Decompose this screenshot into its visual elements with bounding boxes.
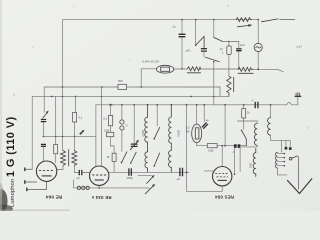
speaker drop wire: [298, 157, 300, 190]
speckles: [13, 94, 14, 95]
wire column x101 tube2: [100, 87, 102, 167]
capacitor tube2 input plates: [79, 170, 82, 175]
capacitor 0,005 plates: [129, 168, 131, 175]
coil L2 upper: [169, 105, 172, 143]
lamp La circle: [254, 43, 262, 51]
capacitor rail right plates: [180, 168, 183, 176]
node cap2µ bottom: [181, 68, 183, 70]
switch blade d: [154, 153, 159, 166]
column lamp x122: [121, 105, 123, 152]
capacitor C2 plates: [201, 49, 207, 51]
switch S2 blade: [214, 37, 223, 41]
tube V2 grid dashes: [92, 174, 106, 176]
wire S3 to line2: [213, 62, 215, 105]
svg-text:Gl: Gl: [220, 47, 223, 51]
wire T1 primary bottom to tube1: [57, 166, 63, 170]
resistor R3 underlined zigzag: [238, 67, 253, 71]
svg-text:RE 034 s: RE 034 s: [91, 195, 111, 200]
node R3 right: [257, 68, 259, 70]
svg-text:2µ: 2µ: [172, 25, 177, 29]
wiper arrow rail2: [147, 176, 154, 183]
column resistor chain x110: [110, 105, 114, 173]
resistor box 0,05 h: [207, 144, 217, 148]
cathode rail y172: [108, 171, 189, 173]
wire anode bus line1: [44, 87, 220, 96]
svg-text:0,45A-W 10V: 0,45A-W 10V: [143, 60, 161, 64]
wire top supply bus: [63, 19, 259, 21]
trimmer arrow: [43, 112, 48, 118]
trimmer column x204: [203, 105, 205, 122]
svg-text:0,05: 0,05: [104, 128, 110, 132]
terminal blocks dark: [285, 147, 288, 150]
capacitor 2µ plates: [179, 34, 186, 36]
node top bus joints: [181, 19, 183, 21]
switch blade b: [131, 152, 136, 163]
node cap1µF bottom: [238, 68, 240, 70]
transformer T1 primary scribble: [61, 151, 66, 166]
coil B: [268, 118, 271, 136]
wire hop over junction: [287, 103, 292, 105]
coil D bottom hook: [278, 168, 287, 175]
lamp circles: [120, 120, 124, 124]
node line3 start: [95, 105, 97, 167]
wire column x225: [224, 105, 226, 146]
svg-text:1µF: 1µF: [240, 43, 245, 47]
svg-text:0,1: 0,1: [103, 116, 107, 120]
ballast resistor oval: [156, 65, 173, 73]
wire to coilA top: [237, 121, 257, 123]
wire Gl leads: [228, 42, 230, 77]
tube V3 plate bar: [218, 179, 227, 181]
svg-text:RE 064: RE 064: [45, 195, 62, 200]
svg-text:0,05: 0,05: [208, 149, 214, 153]
wire tube3 left entry: [205, 170, 213, 172]
switch blade a: [122, 152, 127, 163]
coil L2 lower: [169, 143, 172, 172]
svg-text:µF1: µF1: [186, 48, 191, 52]
bar beside zigzag: [233, 77, 235, 92]
wire C2 bottom: [203, 51, 205, 57]
wire coilA bottom to tube3: [235, 145, 258, 174]
arrowhead on line3: [110, 104, 114, 106]
tube V3 grid dashes: [215, 173, 229, 175]
trimmer cap plates: [41, 120, 46, 122]
svg-text:Dr: Dr: [247, 111, 250, 115]
column switch x157: [156, 105, 158, 126]
trimmer dark bars: [202, 123, 208, 129]
node S3: [213, 61, 215, 63]
switch blade e: [242, 130, 247, 145]
svg-text:a.Si: a.Si: [297, 45, 302, 49]
transformer T1 core bar: [68, 150, 70, 167]
rectifier Gl box: [227, 46, 231, 54]
wire column x75.5 resistor: [74, 96, 77, 150]
corner smudge: [0, 189, 8, 213]
wire column x55.7: [55, 96, 57, 162]
resistor R heater vertical zigzag: [227, 76, 231, 96]
tuning capacitor arrow: [130, 141, 138, 150]
capacitor 1µF plates: [236, 49, 242, 51]
wiper arrow rail1: [145, 185, 154, 194]
wire T1 secondary bottom: [74, 166, 79, 173]
coil L1 lower: [145, 142, 148, 172]
speaker arrow chevron: [288, 179, 312, 194]
lamp feed wire: [257, 20, 259, 69]
svg-text:0,630: 0,630: [177, 129, 181, 136]
wire box to blob: [217, 145, 246, 147]
capacitor grid tube1 plates: [41, 144, 46, 146]
tube2 bottom stub: [98, 185, 100, 188]
wire left bus vertical drop: [62, 20, 64, 151]
wire grid bus line2: [32, 95, 229, 97]
resistor box x55.7: [54, 145, 58, 154]
lamp tilde: [256, 47, 261, 48]
wire grid row y136: [43, 135, 96, 137]
capacitor 2µ feed wire: [181, 20, 183, 69]
grid contact arrow tube2: [80, 131, 84, 134]
wire to tube1 top left: [42, 146, 44, 161]
transformer T1 secondary scribble: [72, 151, 77, 166]
wire oval bottom: [197, 143, 208, 146]
wire rectifier top rail: [222, 41, 238, 43]
wire cap to tube2: [82, 172, 90, 174]
svg-text:RES 054: RES 054: [215, 194, 234, 199]
resistor box 0,1: [73, 112, 77, 122]
wire feed row y69: [141, 69, 283, 87]
svg-text:,005µ: ,005µ: [126, 176, 133, 180]
coil L1 upper: [145, 105, 148, 142]
switch S1 drop wire: [195, 20, 197, 46]
wire line2 left riser to tube terminal: [31, 96, 33, 169]
tube V1 grid dashes: [39, 170, 54, 172]
wire coilB bottom row: [271, 135, 291, 152]
resistor R2 underlined zigzag: [187, 67, 200, 71]
tube V2 plate bar: [95, 179, 104, 181]
terminal T1a: [25, 168, 32, 170]
tube V3 bottom stub: [221, 186, 223, 191]
svg-text:500: 500: [118, 79, 123, 83]
svg-text:0,1: 0,1: [79, 116, 83, 120]
node line1 joints: [62, 86, 64, 88]
svg-text:µF: µF: [177, 177, 181, 181]
svg-text:Dr: Dr: [107, 155, 110, 159]
grid leak oval feed: [196, 105, 198, 125]
svg-text:0,005: 0,005: [141, 129, 145, 136]
node line2 joints: [51, 96, 53, 98]
switch S2 drop wire: [213, 20, 215, 38]
edge shading: [0, 0, 2, 211]
tube V1 plate bar: [42, 175, 52, 177]
coil C: [253, 149, 256, 177]
MAIN SCHEMATIC GROUP: [32, 20, 301, 170]
tube V3 RES envelope: [213, 167, 232, 186]
choke column x243: [243, 105, 245, 130]
capacitor on line3 plates: [255, 102, 258, 108]
terminal T1b: [25, 181, 36, 183]
grid leak oval: [192, 124, 202, 143]
svg-text:0,50: 0,50: [249, 162, 253, 168]
coil B feed: [270, 105, 272, 118]
capacitor 1µF leads: [238, 42, 240, 69]
coil D tapped: [276, 152, 278, 168]
jack circles: [77, 186, 80, 189]
wire column x189 to tube3: [187, 105, 223, 192]
choke box: [242, 109, 246, 118]
svg-text:0,5: 0,5: [186, 126, 190, 130]
node mains junction: [257, 19, 259, 21]
resistor 500 box on line1: [118, 84, 127, 89]
ground symbol top right: [295, 95, 302, 97]
coil A: [254, 123, 257, 145]
wire mains lead: [280, 18, 295, 20]
svg-text:µF: µF: [77, 176, 81, 180]
tube V1 RE064 envelope: [36, 161, 56, 181]
terminal T1c with tube1 bottom lead: [27, 181, 46, 189]
wire trimmer column: [42, 87, 45, 136]
selector wiper: [289, 157, 292, 160]
node S1: [195, 44, 197, 46]
node rectifier top: [228, 41, 230, 43]
column tuning cap x134: [133, 105, 135, 144]
tuning capacitor plates: [131, 144, 138, 146]
resistor box v2: [112, 153, 116, 161]
resistor box h: [107, 132, 114, 136]
tube V2 RE034 envelope: [90, 166, 109, 185]
svg-text:µµ: µµ: [206, 118, 210, 122]
resistor adjustable on bus: [236, 18, 251, 22]
resistor box v1: [109, 115, 113, 125]
switch mains blade: [262, 19, 278, 22]
wire filament bus line3: [96, 97, 298, 105]
svg-text:2M: 2M: [186, 129, 190, 133]
node line3 joints: [110, 104, 112, 106]
capacitor blob dark: [234, 144, 237, 148]
wire tube3 grid drop: [221, 146, 223, 167]
switch S1 blade: [196, 36, 204, 48]
arrow under adjustable resistor: [237, 25, 249, 26]
coil D taps: [278, 154, 284, 166]
switch blade c: [154, 127, 159, 138]
grid leak inner box: [195, 128, 199, 139]
heater rail tubes1-2: [73, 180, 149, 188]
switch S3 blade lower: [205, 57, 219, 62]
wire stub y175.5: [138, 175, 152, 177]
